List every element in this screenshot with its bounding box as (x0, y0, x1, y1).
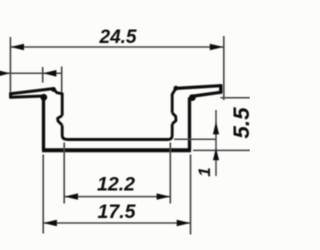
node arrow left 12.2 (64, 193, 78, 199)
node arrow up on 1 dim (213, 122, 219, 135)
node right flange-wall fillet dot (189, 94, 196, 101)
node profile left flange top edge (11, 89, 54, 94)
node arrow right 24.5 (210, 44, 224, 50)
wire 17.5 dimension line (43, 222, 190, 224)
svg-text:1: 1 (195, 167, 214, 176)
node profile left flange bottom edge (11, 96, 44, 97)
svg-text:5.5: 5.5 (229, 107, 250, 139)
node profile outer bottom (42, 148, 191, 152)
node right step corner dot (174, 86, 179, 91)
wire extension inner bottom y=139.2 (174, 138, 216, 140)
wire extension x=170.3 below (169, 143, 171, 204)
wire extension tick x=61.7 (61, 67, 63, 94)
node arrow right 12.2 (157, 193, 171, 199)
node profile left notch (58, 116, 63, 126)
node left step corner dot (51, 87, 56, 92)
wire extension right of flange bottom y=97.8 (221, 97, 251, 99)
node profile left step (53, 89, 62, 94)
node profile right step (172, 88, 176, 94)
wire extension outer bottom y=150.7 (193, 149, 250, 151)
node arrow pointing left at x=43 (43, 70, 57, 77)
node profile left flange tip (9, 93, 12, 97)
node profile right flange bottom edge (194, 92, 221, 96)
wire dimension extension line right of 24.5 (223, 36, 225, 100)
node arrow left 17.5 (43, 220, 57, 226)
node cut arrow at left edge (0, 70, 10, 77)
node profile left inner wall upper (61, 94, 64, 116)
node profile right outer wall (188, 98, 191, 151)
node profile right flange top edge (176, 86, 221, 89)
node left flange-wall fillet dot (40, 94, 47, 101)
wire extension x=64.2 below (63, 143, 65, 204)
wire vertical dimension line for 1 (215, 110, 217, 176)
node profile right notch (172, 113, 176, 124)
wire dimension extension line left of 24.5 (9, 37, 11, 92)
node arrow right 17.5 (177, 220, 191, 226)
node profile right flange tip (219, 86, 222, 93)
wire extension tick x=42.7 (42, 67, 44, 83)
node arrow left 24.5 (10, 44, 24, 50)
node arrow down on 1 dim (213, 148, 219, 160)
wire extension x=43.2 below (42, 155, 44, 234)
wire 12.2 dimension line (64, 196, 170, 198)
wire small dimension line at y=73 (0, 72, 62, 74)
wire extension x=190.5 below (190, 155, 192, 235)
node profile right inner wall lower (168, 124, 172, 140)
node profile left outer wall (42, 97, 45, 151)
svg-text:12.2: 12.2 (97, 174, 135, 196)
node profile left inner wall lower (62, 125, 66, 139)
node profile right inner wall upper (171, 94, 174, 113)
node profile inner bottom (67, 138, 169, 141)
svg-text:17.5: 17.5 (98, 201, 137, 223)
svg-text:24.5: 24.5 (99, 27, 137, 48)
wire 24.5 dimension line (10, 46, 223, 48)
